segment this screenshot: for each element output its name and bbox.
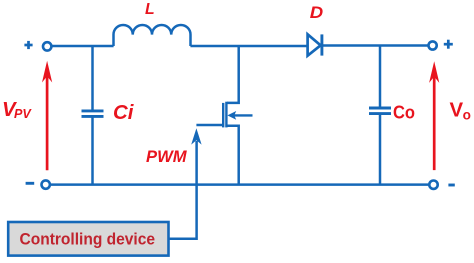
svg-text:o: o xyxy=(463,107,471,122)
svg-text:V: V xyxy=(450,100,464,122)
svg-text:Ci: Ci xyxy=(113,102,135,124)
svg-text:Controlling device: Controlling device xyxy=(20,229,156,248)
svg-text:PV: PV xyxy=(14,107,32,121)
svg-text:L: L xyxy=(145,1,155,18)
svg-text:PWM: PWM xyxy=(146,147,188,166)
svg-text:D: D xyxy=(310,4,324,22)
svg-text:Co: Co xyxy=(393,102,415,123)
